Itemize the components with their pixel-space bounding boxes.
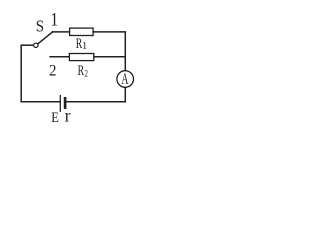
svg-text:E: E — [51, 109, 59, 125]
label 1 — [50, 9, 58, 29]
wire R1 right lead — [93, 31, 125, 33]
label r — [65, 105, 71, 126]
svg-text:1: 1 — [50, 9, 58, 29]
wire right vertical lower — [124, 87, 126, 101]
svg-text:2: 2 — [49, 62, 56, 80]
label E — [51, 109, 59, 125]
switch S pivot — [34, 43, 38, 47]
svg-text:r: r — [65, 105, 71, 126]
wire battery to bottom right — [66, 101, 125, 103]
ammeter label A — [121, 69, 129, 87]
resistor R2 — [69, 54, 93, 61]
wire bottom left to battery — [21, 101, 60, 103]
wire top-left to switch pivot — [21, 44, 33, 46]
wire R2 right lead — [94, 56, 126, 58]
wire contact 1 to R1 — [52, 31, 69, 33]
svg-text:1: 1 — [82, 41, 87, 52]
label R2 — [78, 62, 85, 79]
wire contact 2 to R2 — [50, 56, 69, 58]
label 2 — [49, 62, 56, 80]
wire left vertical — [20, 45, 22, 102]
label R1 — [76, 35, 83, 52]
switch S blade — [38, 32, 53, 44]
svg-text:2: 2 — [84, 68, 88, 78]
svg-text:R: R — [78, 62, 85, 79]
label S — [36, 18, 44, 36]
wire right vertical upper — [124, 32, 126, 71]
ammeter A circle — [117, 71, 134, 88]
battery short thick plate — [64, 98, 67, 107]
svg-text:A: A — [121, 69, 129, 87]
resistor R1 — [70, 28, 94, 35]
battery long plate — [59, 96, 61, 112]
svg-text:S: S — [36, 18, 44, 36]
